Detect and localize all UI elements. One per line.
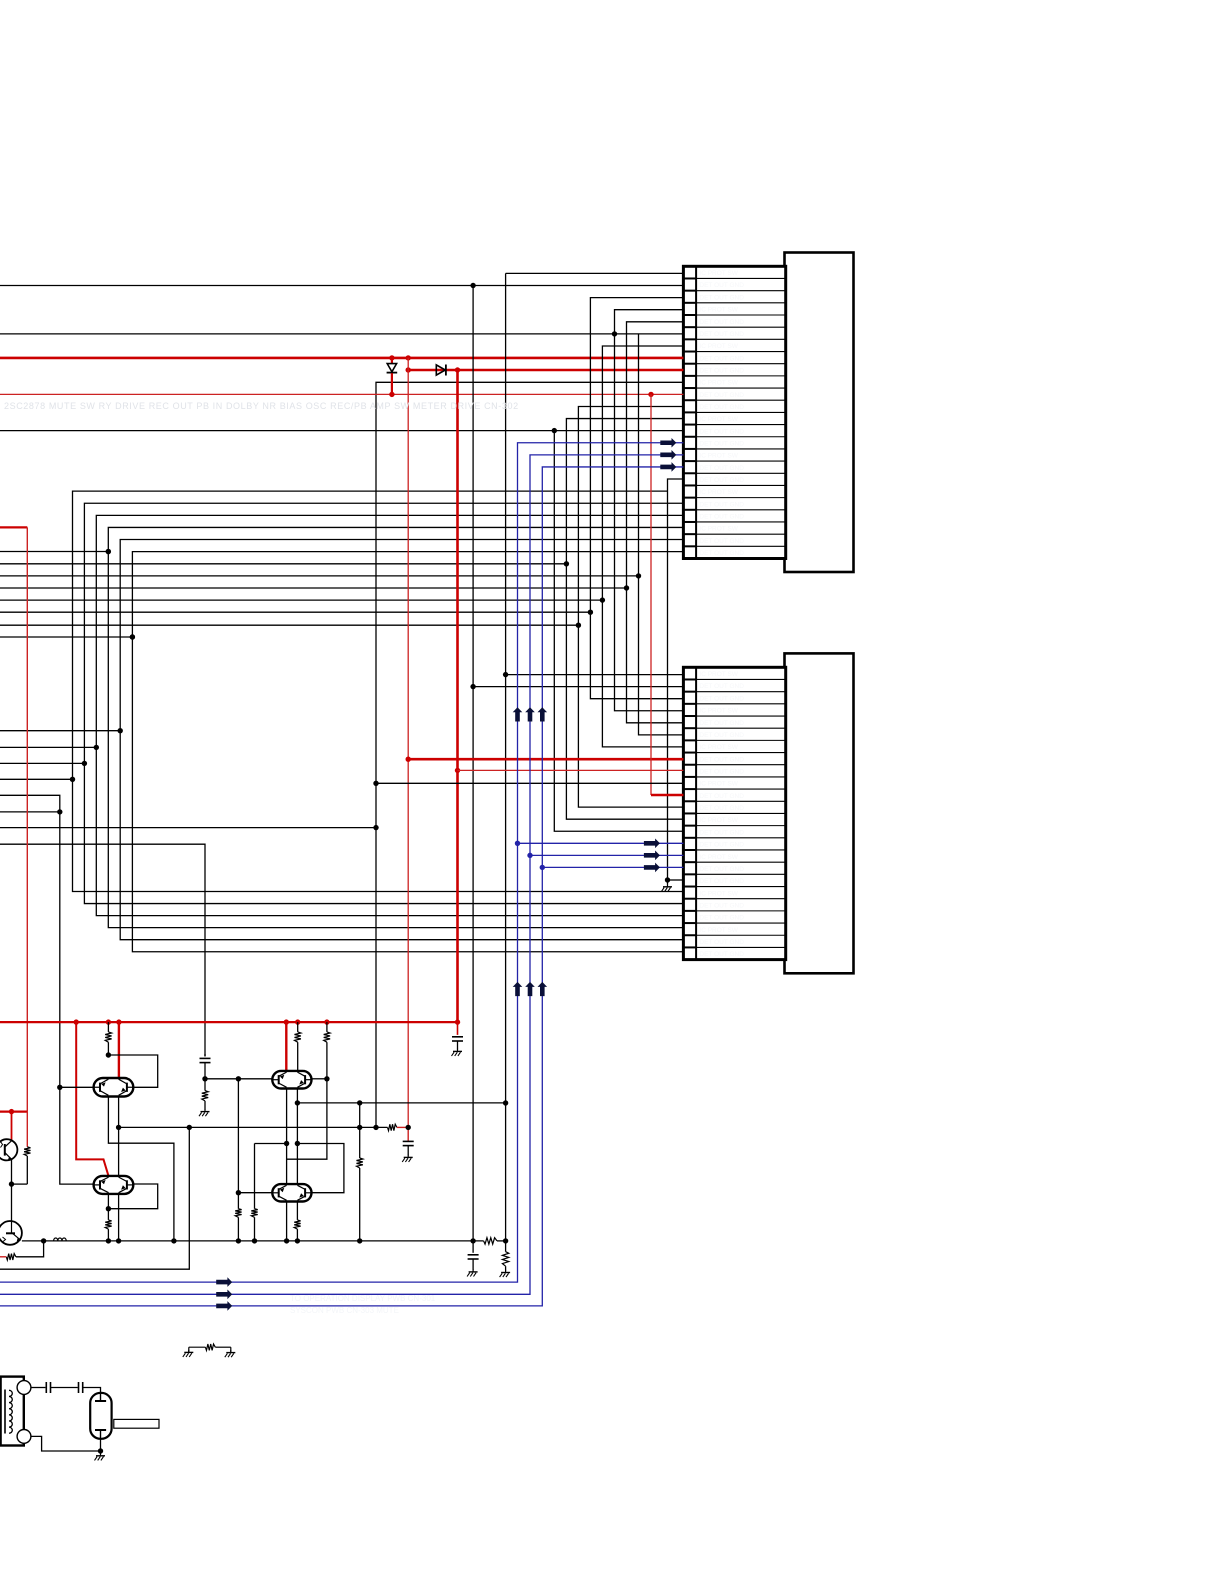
svg-text:DET OUT GND: DET OUT GND xyxy=(699,294,744,301)
svg-text:DET OUT GND: DET OUT GND xyxy=(699,805,744,812)
junction xyxy=(357,1100,362,1105)
junction xyxy=(624,585,629,590)
wire xyxy=(650,394,652,795)
svg-text:IC PROT SW: IC PROT SW xyxy=(699,489,738,496)
wire xyxy=(108,1097,173,1241)
junction xyxy=(470,1238,475,1243)
svg-text:DET OUT GND: DET OUT GND xyxy=(699,428,744,435)
svg-text:DET OUT GND: DET OUT GND xyxy=(699,477,744,484)
wire xyxy=(297,1102,505,1104)
capacitor C4 xyxy=(472,1241,474,1253)
wire xyxy=(0,599,602,601)
svg-text:DET OUT GND: DET OUT GND xyxy=(699,720,744,727)
junction xyxy=(284,1141,289,1146)
svg-text:2SC2878 MUTE SW RY DRIVE REC: 2SC2878 MUTE SW RY DRIVE REC OUT PB IN D… xyxy=(4,401,519,411)
wire xyxy=(627,322,684,723)
junction xyxy=(106,1206,111,1211)
transistor Q2 xyxy=(0,1221,22,1245)
wire xyxy=(0,526,27,528)
svg-text:IC PROT SW: IC PROT SW xyxy=(699,817,738,824)
capacitor C5 xyxy=(45,1382,47,1393)
capacitor C6 xyxy=(78,1382,80,1393)
svg-text:IC PROT SW: IC PROT SW xyxy=(699,416,738,423)
wire xyxy=(0,430,683,432)
wire bus loop 3 xyxy=(96,515,683,915)
svg-text:SYSCON PWB CN-303 MUTE: SYSCON PWB CN-303 MUTE xyxy=(290,1306,399,1315)
wire xyxy=(590,298,683,699)
svg-text:DET OUT GND: DET OUT GND xyxy=(699,683,744,690)
wire xyxy=(51,1387,78,1389)
arrow xyxy=(660,438,676,448)
wire xyxy=(83,1388,101,1393)
junction xyxy=(552,428,557,433)
junction xyxy=(284,1019,289,1024)
wire xyxy=(26,527,28,1111)
junction xyxy=(648,392,653,397)
svg-text:IC PROT SW: IC PROT SW xyxy=(699,671,738,678)
arrow xyxy=(216,1301,232,1311)
wire xyxy=(297,1144,344,1193)
junction xyxy=(600,597,605,602)
arrow xyxy=(644,851,660,861)
junction xyxy=(116,1125,121,1130)
junction xyxy=(82,761,87,766)
svg-text:DET OUT GND: DET OUT GND xyxy=(699,866,744,873)
junction xyxy=(357,1238,362,1243)
wire xyxy=(0,611,590,613)
junction xyxy=(295,1141,300,1146)
wire Vcc xyxy=(0,357,683,360)
resistor R5 xyxy=(388,1124,397,1130)
wire xyxy=(0,778,73,780)
label box xyxy=(114,1419,159,1428)
svg-text:DET OUT GND: DET OUT GND xyxy=(699,915,744,922)
capacitor C3 xyxy=(204,1054,206,1056)
wire xyxy=(0,730,120,732)
wire xyxy=(408,758,683,761)
wire xyxy=(566,419,683,820)
svg-text:IC PROT SW: IC PROT SW xyxy=(699,307,738,314)
svg-text:DET OUT GND: DET OUT GND xyxy=(699,550,744,557)
wire xyxy=(472,286,474,1241)
resistor R3 xyxy=(297,1022,299,1032)
junction xyxy=(455,1019,460,1024)
arrow xyxy=(644,839,660,849)
wire xyxy=(12,1183,28,1185)
svg-text:DET OUT GND: DET OUT GND xyxy=(699,878,744,885)
junction xyxy=(57,1085,62,1090)
capacitor C1 xyxy=(457,1022,459,1035)
svg-text:DET OUT GND: DET OUT GND xyxy=(699,319,744,326)
wire xyxy=(456,370,459,1022)
wire xyxy=(0,393,683,395)
inductor L1 xyxy=(54,1238,67,1241)
arrow xyxy=(538,707,548,721)
resistor R9 xyxy=(359,1103,361,1158)
junction xyxy=(284,1238,289,1243)
resistor R7 xyxy=(204,1079,206,1091)
junction xyxy=(171,1238,176,1243)
wire xyxy=(255,1143,287,1145)
wire bus loop 5 xyxy=(120,540,683,940)
svg-text:DET OUT GND: DET OUT GND xyxy=(699,355,744,362)
wire xyxy=(0,795,94,1184)
wire xyxy=(0,827,376,829)
junction xyxy=(41,1238,46,1243)
junction xyxy=(106,1052,111,1057)
svg-text:IC PROT SW: IC PROT SW xyxy=(699,526,738,533)
svg-text:IC PROT SW: IC PROT SW xyxy=(699,744,738,751)
resistor R15 xyxy=(188,1350,190,1353)
wire ground bus xyxy=(22,1240,484,1242)
wire xyxy=(0,1127,189,1269)
svg-text:IC PROT SW: IC PROT SW xyxy=(699,708,738,715)
svg-text:IC PROT SW: IC PROT SW xyxy=(699,927,738,934)
wire xyxy=(286,1202,288,1241)
svg-text:IC PROT SW: IC PROT SW xyxy=(699,343,738,350)
connector CN1 (body and pin strip) xyxy=(785,253,854,573)
svg-text:DET OUT GND: DET OUT GND xyxy=(699,902,744,909)
wire xyxy=(0,624,578,626)
wire xyxy=(118,1097,120,1176)
junction xyxy=(74,1019,79,1024)
wire bus loop 2 xyxy=(84,503,683,903)
wire xyxy=(118,1194,120,1241)
svg-text:DET OUT GND: DET OUT GND xyxy=(699,756,744,763)
wire xyxy=(376,782,683,784)
svg-text:TO OPERATION DISPLAY PWB CN-: TO OPERATION DISPLAY PWB CN-301 xyxy=(290,1294,436,1303)
junction xyxy=(540,865,545,870)
junction xyxy=(665,877,670,882)
wire xyxy=(16,1241,44,1257)
wire xyxy=(108,1055,157,1087)
wire xyxy=(286,1089,288,1185)
junction xyxy=(9,1109,14,1114)
junction xyxy=(373,1125,378,1130)
wire xyxy=(100,1439,102,1451)
svg-text:DET OUT GND: DET OUT GND xyxy=(699,514,744,521)
ground xyxy=(667,880,669,884)
resistor R2 xyxy=(107,1022,109,1032)
wire xyxy=(615,310,684,711)
resistor R13 xyxy=(505,1241,507,1252)
wire xyxy=(108,1184,157,1209)
junction xyxy=(106,1019,111,1024)
junction xyxy=(636,573,641,578)
wire xyxy=(205,1078,272,1080)
wire xyxy=(376,382,683,1127)
svg-text:DET OUT GND: DET OUT GND xyxy=(699,404,744,411)
junction xyxy=(130,634,135,639)
wire xyxy=(31,1387,46,1389)
junction xyxy=(324,1019,329,1024)
wire Vcc bus xyxy=(0,1021,458,1023)
transistor Q6 (dual pack) xyxy=(272,1184,311,1201)
junction xyxy=(236,1238,241,1243)
wire xyxy=(651,794,683,797)
junction xyxy=(373,781,378,786)
ground xyxy=(100,1451,102,1453)
svg-text:DET OUT GND: DET OUT GND xyxy=(699,441,744,448)
wire xyxy=(312,1078,327,1080)
wire xyxy=(118,1022,120,1079)
svg-text:IC PROT SW: IC PROT SW xyxy=(699,781,738,788)
wire xyxy=(505,273,507,1103)
resistor R11 xyxy=(296,1202,298,1220)
svg-text:DET OUT GND: DET OUT GND xyxy=(699,939,744,946)
wire xyxy=(505,1103,507,1241)
diode D2 xyxy=(436,365,445,375)
wire bus blue xyxy=(0,455,683,1294)
wire bus loop 1 xyxy=(73,491,684,891)
wire bus blue xyxy=(0,467,683,1306)
wire xyxy=(11,1112,13,1140)
junction xyxy=(295,1019,300,1024)
connector CN2 (body and pin strip) xyxy=(785,653,854,973)
wire blue branch xyxy=(542,866,683,868)
wire xyxy=(11,1159,13,1221)
transistor Q3 (dual pack) xyxy=(94,1078,134,1097)
transistor Q5 (dual pack) xyxy=(272,1071,311,1089)
wire xyxy=(0,587,627,589)
arrow xyxy=(525,707,535,721)
wire xyxy=(0,844,205,1056)
junction xyxy=(527,853,532,858)
junction xyxy=(202,1076,207,1081)
junction xyxy=(106,549,111,554)
svg-text:DET OUT GND: DET OUT GND xyxy=(699,829,744,836)
svg-text:DET OUT GND: DET OUT GND xyxy=(699,842,744,849)
capacitor C2 xyxy=(407,1127,409,1141)
junction xyxy=(406,355,411,360)
junction xyxy=(389,392,394,397)
junction xyxy=(118,728,123,733)
resistor R12 xyxy=(484,1238,497,1244)
wire xyxy=(76,1022,108,1176)
wire xyxy=(473,686,683,688)
arrow xyxy=(216,1290,232,1300)
junction xyxy=(324,1076,329,1081)
wire xyxy=(0,285,683,287)
wire xyxy=(0,563,566,565)
wire xyxy=(554,431,683,832)
ground xyxy=(472,1269,474,1272)
junction xyxy=(295,1238,300,1243)
junction xyxy=(106,549,111,554)
wire xyxy=(407,358,409,1128)
wire blue branch xyxy=(530,854,683,856)
transistor Q4 (dual pack) xyxy=(94,1176,134,1194)
svg-text:DET OUT GND: DET OUT GND xyxy=(699,769,744,776)
wire xyxy=(0,762,84,764)
junction xyxy=(389,355,394,360)
svg-text:IC PROT SW: IC PROT SW xyxy=(699,453,738,460)
resistor R10 xyxy=(235,1209,241,1218)
tube V1 xyxy=(90,1393,111,1439)
junction xyxy=(406,367,411,372)
wire xyxy=(506,674,684,676)
junction xyxy=(406,757,411,762)
junction xyxy=(252,1238,257,1243)
svg-text:DET OUT GND: DET OUT GND xyxy=(699,392,744,399)
junction xyxy=(455,768,460,773)
junction xyxy=(116,1019,121,1024)
wire bus loop 6 xyxy=(132,552,683,952)
diode D1 xyxy=(391,358,393,363)
svg-text:DET OUT GND: DET OUT GND xyxy=(699,465,744,472)
wire xyxy=(602,346,683,747)
resistor R8 xyxy=(254,1144,256,1209)
wire xyxy=(285,1022,287,1071)
junction xyxy=(98,1448,103,1453)
junction xyxy=(588,610,593,615)
arrow xyxy=(525,982,535,996)
junction xyxy=(470,283,475,288)
junction xyxy=(116,1238,121,1243)
junction xyxy=(503,1100,508,1105)
wire xyxy=(238,1192,272,1194)
junction xyxy=(470,684,475,689)
transformer T1 xyxy=(1,1377,24,1446)
wire bus loop 4 xyxy=(108,527,683,927)
wire xyxy=(0,575,639,577)
svg-text:DET OUT GND: DET OUT GND xyxy=(699,695,744,702)
arrow xyxy=(660,462,676,472)
junction xyxy=(187,1125,192,1130)
junction xyxy=(455,367,460,372)
wire xyxy=(506,272,684,274)
junction xyxy=(576,623,581,628)
junction xyxy=(57,809,62,814)
svg-text:DET OUT GND: DET OUT GND xyxy=(699,331,744,338)
svg-text:DET OUT GND: DET OUT GND xyxy=(699,951,744,958)
wire xyxy=(668,479,684,880)
svg-text:DET OUT GND: DET OUT GND xyxy=(699,732,744,739)
wire xyxy=(0,333,683,335)
junction xyxy=(406,1125,411,1130)
svg-text:IC PROT SW: IC PROT SW xyxy=(699,380,738,387)
wire xyxy=(0,551,108,553)
arrow xyxy=(513,982,523,996)
junction xyxy=(236,1076,241,1081)
svg-text:DET OUT GND: DET OUT GND xyxy=(699,367,744,374)
junction xyxy=(503,672,508,677)
junction xyxy=(236,1190,241,1195)
arrow xyxy=(538,982,548,996)
arrow xyxy=(660,450,676,460)
junction xyxy=(503,1238,508,1243)
svg-text:IC PROT SW: IC PROT SW xyxy=(699,890,738,897)
svg-text:DET OUT GND: DET OUT GND xyxy=(699,282,744,289)
wire xyxy=(287,1079,327,1159)
ground xyxy=(457,1049,459,1052)
junction xyxy=(94,745,99,750)
svg-text:DET OUT GND: DET OUT GND xyxy=(699,793,744,800)
wire xyxy=(408,369,683,372)
resistor R4 xyxy=(326,1022,328,1032)
junction xyxy=(515,841,520,846)
arrow xyxy=(216,1277,232,1287)
wire xyxy=(639,334,684,735)
wire xyxy=(31,1436,101,1451)
wire xyxy=(0,636,132,638)
junction xyxy=(70,777,75,782)
arrow xyxy=(644,863,660,873)
wire bus blue xyxy=(0,443,683,1282)
junction xyxy=(9,1181,14,1186)
wire xyxy=(0,1110,27,1112)
svg-text:IC PROT SW: IC PROT SW xyxy=(699,854,738,861)
wire xyxy=(668,879,684,881)
wire xyxy=(0,746,96,748)
resistor R14 xyxy=(6,1254,16,1260)
junction xyxy=(130,634,135,639)
junction xyxy=(106,1238,111,1243)
wire xyxy=(578,406,683,807)
svg-text:DET OUT GND: DET OUT GND xyxy=(699,501,744,508)
wire blue branch xyxy=(518,842,684,844)
junction xyxy=(373,825,378,830)
resistor R6 xyxy=(107,1194,109,1209)
ground xyxy=(505,1270,507,1273)
wire xyxy=(60,1086,94,1088)
transistor Q1 xyxy=(0,1139,17,1160)
resistor R1 xyxy=(26,1112,28,1147)
junction xyxy=(612,331,617,336)
wire xyxy=(458,769,684,771)
svg-text:DET OUT GND: DET OUT GND xyxy=(699,538,744,545)
arrow xyxy=(513,707,523,721)
junction xyxy=(564,561,569,566)
wire xyxy=(296,1089,298,1185)
wire xyxy=(237,1079,239,1209)
svg-text:IC PROT SW: IC PROT SW xyxy=(699,270,738,277)
ground xyxy=(204,1109,206,1112)
ground xyxy=(407,1155,409,1158)
junction xyxy=(295,1100,300,1105)
junction xyxy=(357,1125,362,1130)
wire xyxy=(119,1126,388,1128)
wire xyxy=(0,811,60,813)
